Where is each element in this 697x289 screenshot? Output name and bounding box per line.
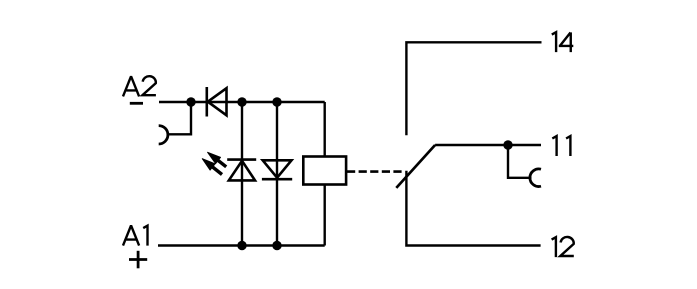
LED cathode bar xyxy=(227,158,256,161)
wire junction down-right to clamp xyxy=(508,145,532,178)
wire terminal 14 branch (corner) xyxy=(406,42,541,135)
wire LED branch vertical xyxy=(241,102,243,246)
node junction on A1 wire (suppressor diode branch) xyxy=(272,241,281,250)
wire from A2 line down to relay coil top xyxy=(324,102,326,157)
relay coil K1 xyxy=(303,157,346,185)
node junction on A2 wire (LED branch) xyxy=(237,97,246,106)
wire suppressor diode branch vertical xyxy=(276,102,278,246)
clamp terminal symbol left (arc opening left) xyxy=(159,126,168,144)
minus polarity mark at A2 xyxy=(130,102,143,105)
terminal label 11 xyxy=(552,136,570,156)
terminal label 12 xyxy=(552,237,574,257)
LED light emission arrow 2 xyxy=(202,159,222,175)
node junction on A2 wire (clamp branch) xyxy=(186,97,195,106)
terminal label A2 xyxy=(123,76,156,96)
LED light emission arrow 1 xyxy=(208,152,227,167)
plus polarity mark at A1 xyxy=(129,251,147,268)
LED triangle (pointing up) xyxy=(229,161,255,181)
wire terminal 12 branch (corner) xyxy=(406,171,540,246)
wire A1 horizontal xyxy=(158,244,325,246)
terminal label A1 xyxy=(123,226,148,246)
node junction on A2 wire (suppressor diode branch) xyxy=(272,97,281,106)
clamp terminal symbol right (arc opening right) xyxy=(530,169,541,187)
terminal label 14 xyxy=(552,32,574,52)
node junction on 11 wire (clamp branch) xyxy=(503,140,512,149)
wire A2 horizontal xyxy=(159,101,325,103)
wire junction down-left to clamp xyxy=(169,102,191,134)
dashed actuation link from coil to contact xyxy=(347,170,403,173)
wire relay coil bottom to A1 line xyxy=(324,185,326,246)
node junction on A1 wire (LED branch) xyxy=(237,241,246,250)
suppressor diode D2 cathode bar xyxy=(262,178,292,181)
suppressor diode D2 triangle (pointing down) xyxy=(263,160,292,177)
diode D1 cathode bar xyxy=(206,87,209,117)
wire terminal 11 horizontal xyxy=(435,144,541,146)
contact blade (changeover, resting on 12) xyxy=(396,145,435,188)
diode D1 triangle (pointing left) xyxy=(208,88,227,115)
